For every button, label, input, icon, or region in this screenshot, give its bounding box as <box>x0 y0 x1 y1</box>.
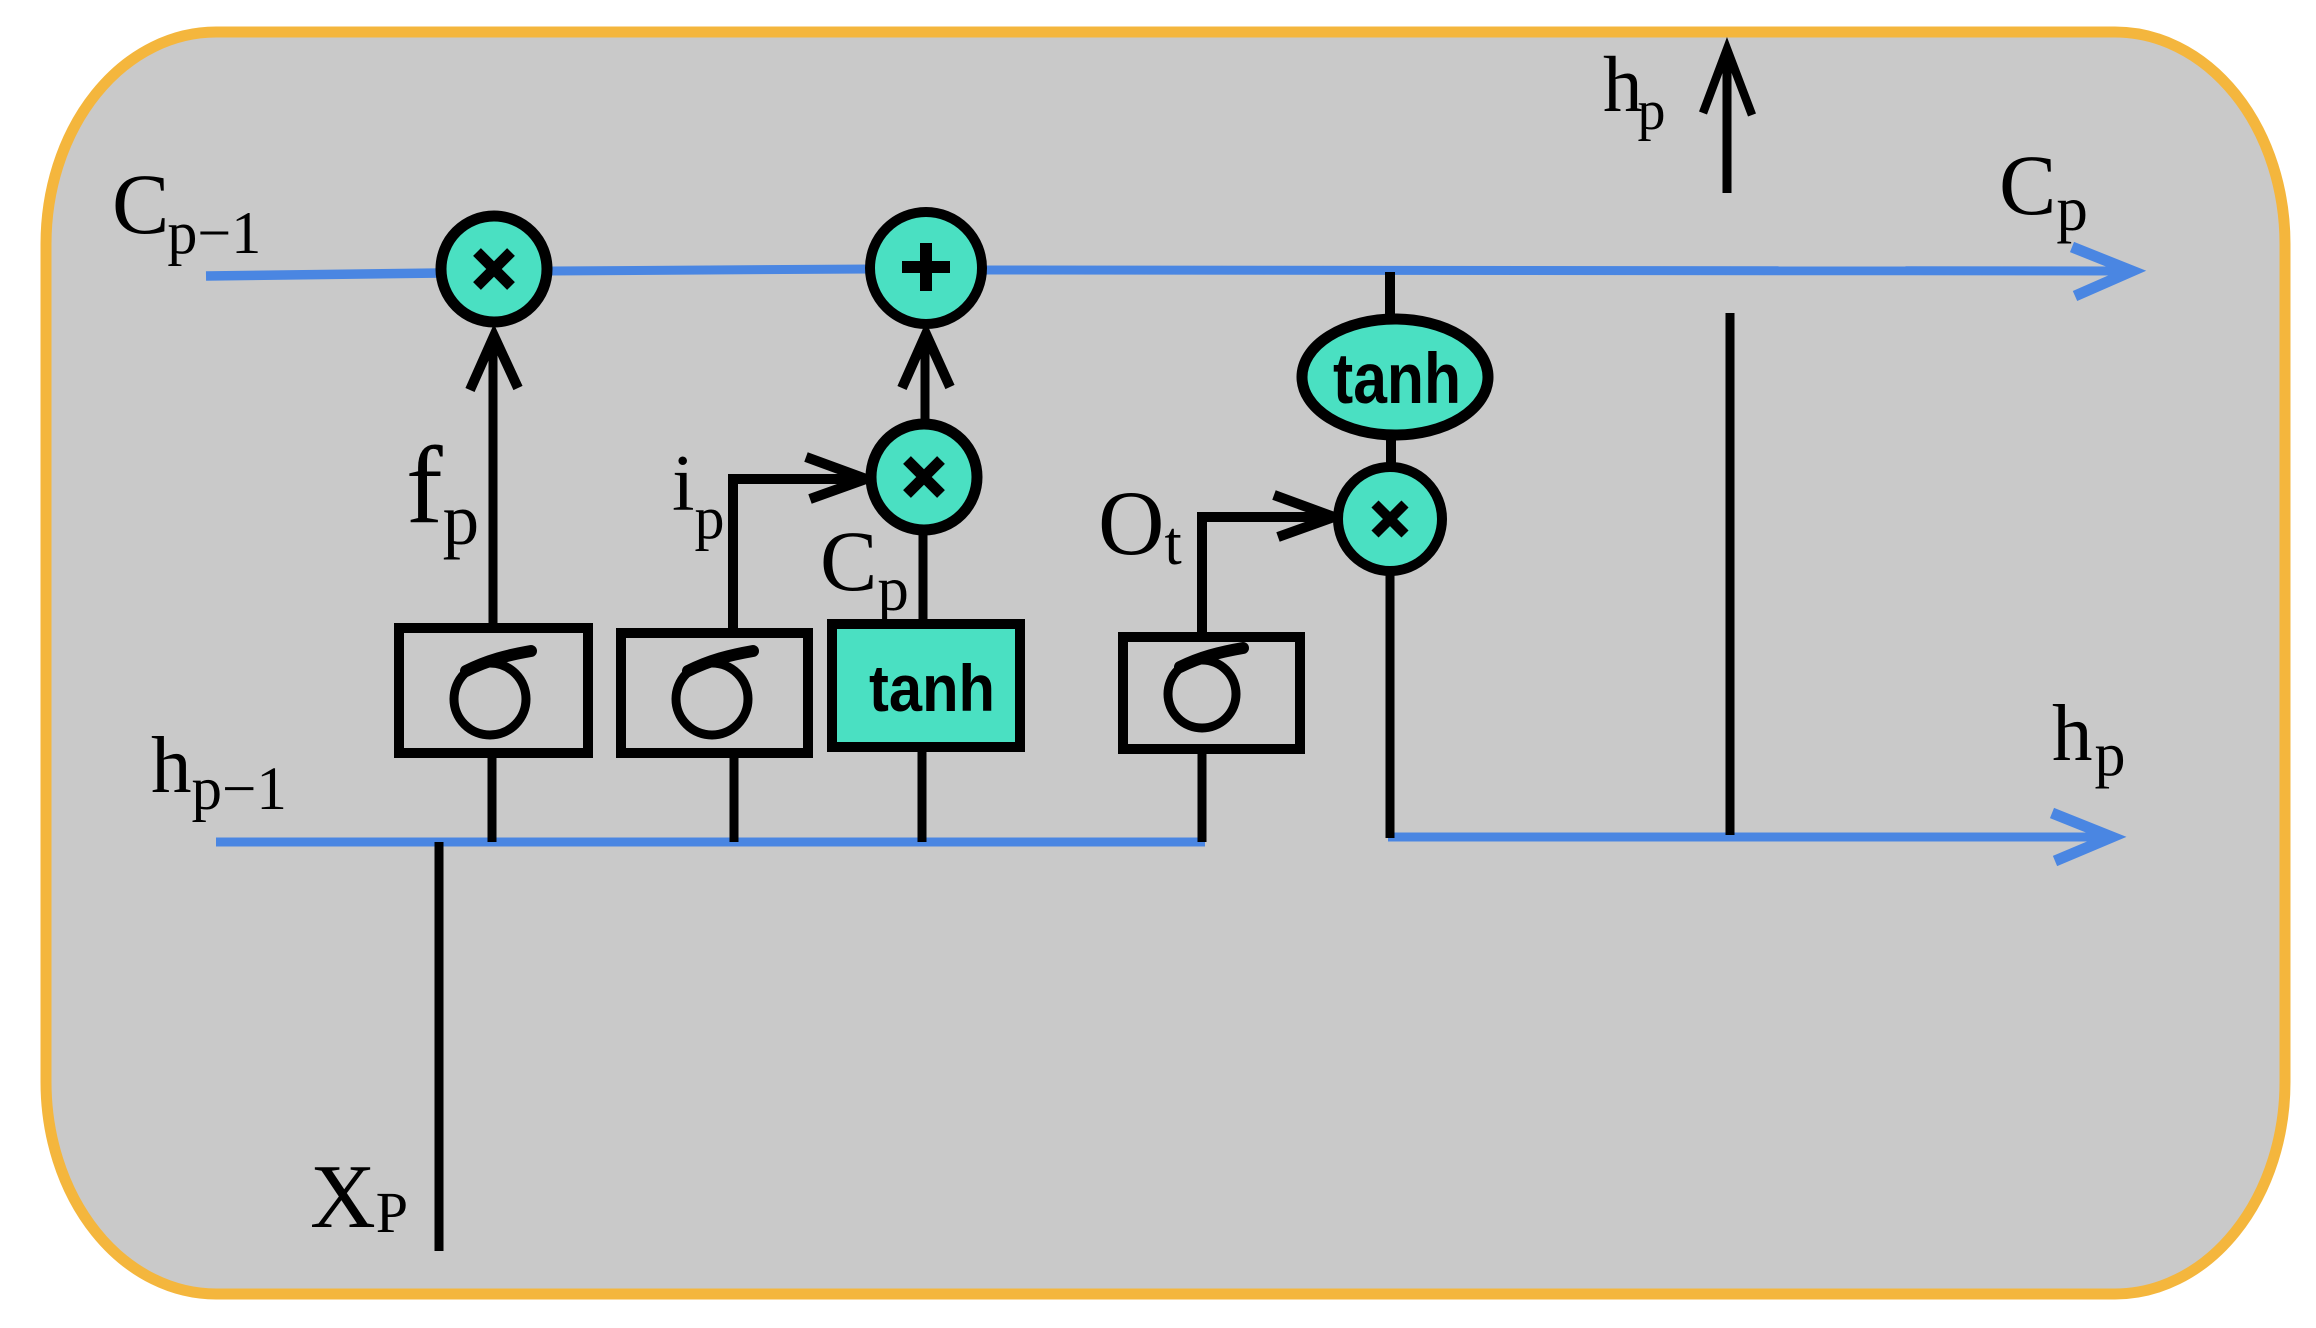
input gate wire i_p (sigma2 up, corner, right into x gate 2) <box>733 479 856 634</box>
tanh box (candidate) <box>832 624 1020 747</box>
wire tanh ellipse to x gate 3 <box>1386 435 1396 470</box>
sigma glyph 1 <box>454 651 531 735</box>
h_p up arrow shaft (top) <box>1723 52 1732 193</box>
sigma box 1 (forget gate) <box>399 628 588 753</box>
forget gate arrowhead <box>470 336 518 390</box>
h_p up arrowhead <box>1703 49 1752 115</box>
wire tanh box down to h line <box>918 747 927 842</box>
cell-state output arrowhead <box>2072 247 2132 296</box>
wire from cell-state line down to tanh ellipse <box>1385 272 1395 320</box>
wire sigma1 down to h line <box>488 753 497 842</box>
h_p output vertical line (right) <box>1726 313 1735 835</box>
hidden-state line segment right (x gate 3 to h_p arrow) <box>1388 833 2098 842</box>
cell-state line segment middle (x gate to + gate) <box>551 269 872 271</box>
wire from x gate 2 down to tanh box <box>919 528 928 626</box>
sigma glyph 4 <box>1168 648 1243 728</box>
hidden-state line segment left (h_p-1 to sigma4 junction) <box>216 838 1205 847</box>
x gate 2 (input multiply) <box>871 424 977 530</box>
hidden-state output arrowhead <box>2052 813 2112 861</box>
x gate 3 (output multiply) <box>1338 467 1442 571</box>
wire sigma4 down to h line <box>1198 749 1207 842</box>
svg-text:tanh: tanh <box>869 651 995 725</box>
+ gate (cell state add) <box>870 212 982 324</box>
sigma glyph 2 <box>676 651 753 735</box>
wire x gate 3 down to h line <box>1386 571 1395 838</box>
x gate 1 (forget multiply) <box>441 216 547 322</box>
output gate wire O_t (sigma4 up, corner, right into x gate 3) <box>1202 517 1324 639</box>
cell-state line segment left (C_p-1 to x gate) <box>206 273 442 276</box>
sigma box 4 (output gate) <box>1123 637 1300 749</box>
cell-state line segment right (+ gate to Cp arrow) <box>984 270 2124 271</box>
sigma box 2 (input gate) <box>621 633 808 753</box>
arrowhead into + gate <box>902 334 950 388</box>
arrowhead O_t into x gate 3 <box>1274 495 1334 537</box>
svg-text:tanh: tanh <box>1333 340 1461 419</box>
tanh ellipse (output activation) <box>1302 319 1488 435</box>
forget gate wire f_p (sigma1 up to x gate) <box>489 340 498 630</box>
wire from x gate 2 up to + gate <box>921 340 930 424</box>
arrowhead i_p into x gate 2 <box>806 457 866 499</box>
wire sigma2 down to h line <box>730 753 739 842</box>
input wire X_P from h line down <box>435 842 444 1251</box>
